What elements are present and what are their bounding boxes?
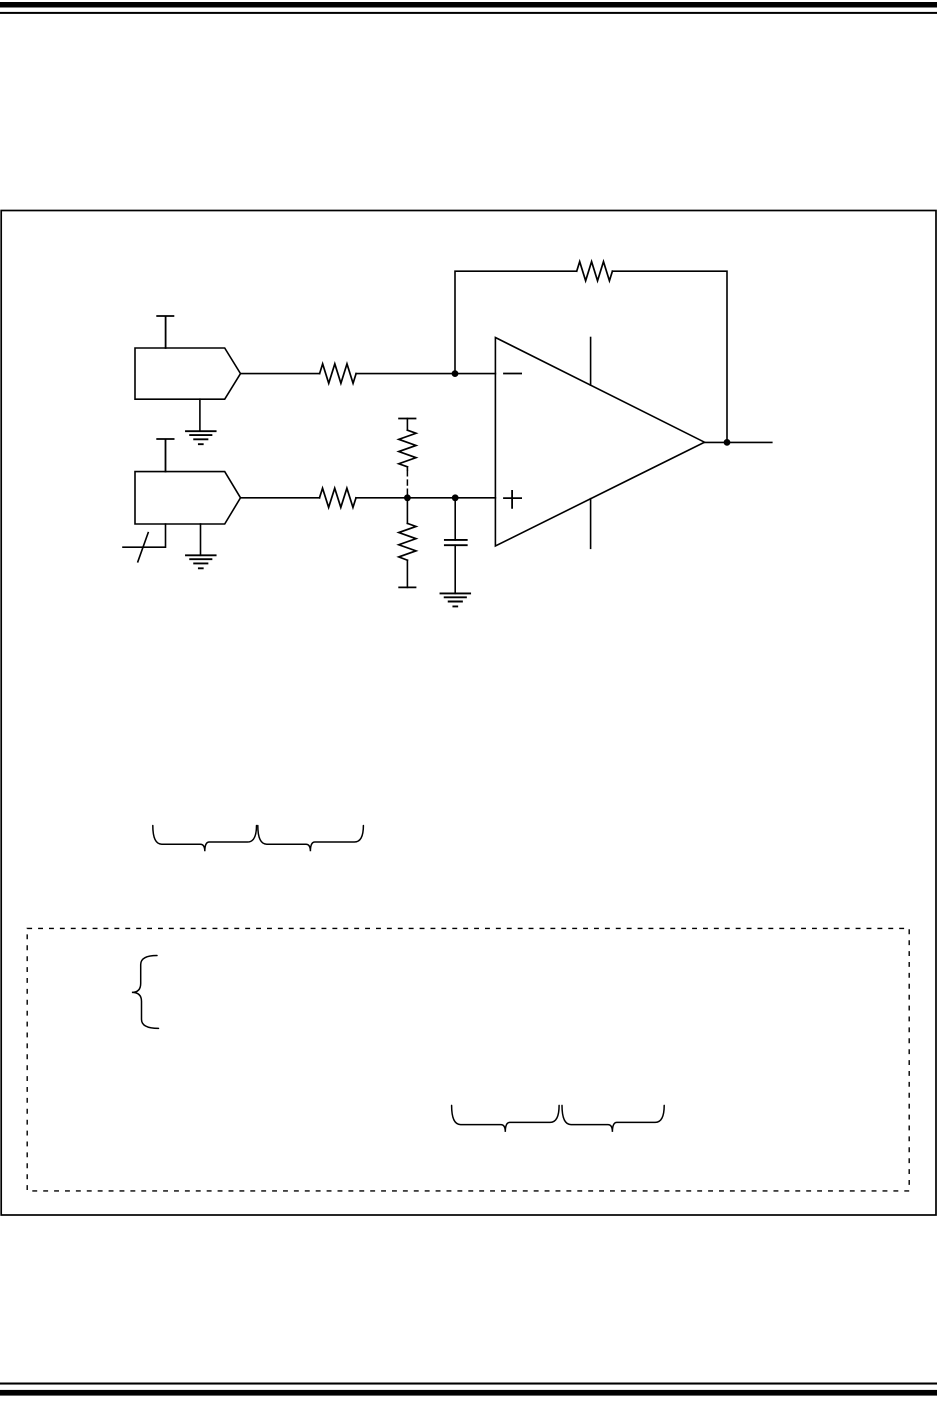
- underbrace annotation 1 (left): [153, 826, 257, 852]
- signal source block A (pentagon): [135, 348, 241, 399]
- op-amp inverting input minus sign: [504, 373, 521, 375]
- wire: block A output to R2: [241, 373, 320, 375]
- signal source block B (pentagon): [135, 472, 241, 524]
- op-amp positive supply pin: [590, 338, 592, 386]
- node: output junction: [724, 439, 731, 446]
- underbrace annotation 2 (left): [452, 1105, 559, 1132]
- node: C1 junction: [452, 494, 459, 501]
- wire: R5 to bottom T terminal: [406, 560, 408, 587]
- block B ground pin wire: [200, 524, 202, 555]
- resistor R1 (feedback): [577, 262, 613, 281]
- node: R4/R5 junction: [404, 494, 411, 501]
- resistor R3 (series, non-inverting input): [320, 488, 357, 507]
- ground (block B): [186, 555, 216, 568]
- wire: node to R5: [406, 498, 408, 524]
- figure frame: [1, 211, 936, 1216]
- wire: T terminal to R4: [406, 419, 408, 431]
- bottom footer thick rule: [0, 1390, 937, 1396]
- block A ground pin wire: [199, 399, 201, 431]
- resistor R4 (vertical, pull-up): [399, 430, 416, 467]
- wire: feedback top to output riser: [612, 271, 727, 442]
- note dashed box: [27, 928, 909, 1191]
- block A top pin with T terminal: [157, 316, 173, 348]
- node: inverting input junction: [452, 370, 459, 377]
- wire: R2 to inverting input: [356, 373, 495, 375]
- op-amp non-inverting input plus sign: [504, 491, 521, 508]
- op-amp negative supply pin: [590, 499, 592, 549]
- wire: R3 to non-inverting input: [356, 497, 495, 499]
- underbrace annotation 2 (right): [562, 1105, 664, 1132]
- wire: C1 to ground: [454, 545, 456, 593]
- block B top pin with T terminal: [157, 439, 173, 472]
- ground (C1): [441, 593, 471, 606]
- resistor R5 bottom T terminal: [399, 586, 415, 588]
- capacitor C1 plates: [445, 540, 467, 545]
- wire: feedback left riser: [455, 271, 577, 373]
- resistor R4 top T terminal: [399, 418, 415, 420]
- underbrace annotation 1 (right): [258, 826, 364, 852]
- wire: block B output to R3: [241, 497, 320, 499]
- resistor R2 (series, inverting input): [320, 364, 357, 383]
- ground (block A): [186, 431, 216, 444]
- top header thin rule: [0, 12, 937, 14]
- bottom footer thin rule: [0, 1383, 937, 1385]
- wire: node to capacitor C1: [454, 498, 456, 540]
- top header thick rule: [0, 2, 937, 8]
- block B control pin wire: [123, 524, 166, 547]
- wire: op-amp output: [705, 441, 772, 443]
- curly brace annotation (in note box): [132, 956, 159, 1029]
- op-amp U1 triangle: [495, 338, 704, 547]
- wire: dashed optional link R4 to node: [406, 467, 408, 470]
- bus-width slash: [138, 533, 148, 562]
- resistor R5 (vertical, to terminal): [399, 523, 416, 560]
